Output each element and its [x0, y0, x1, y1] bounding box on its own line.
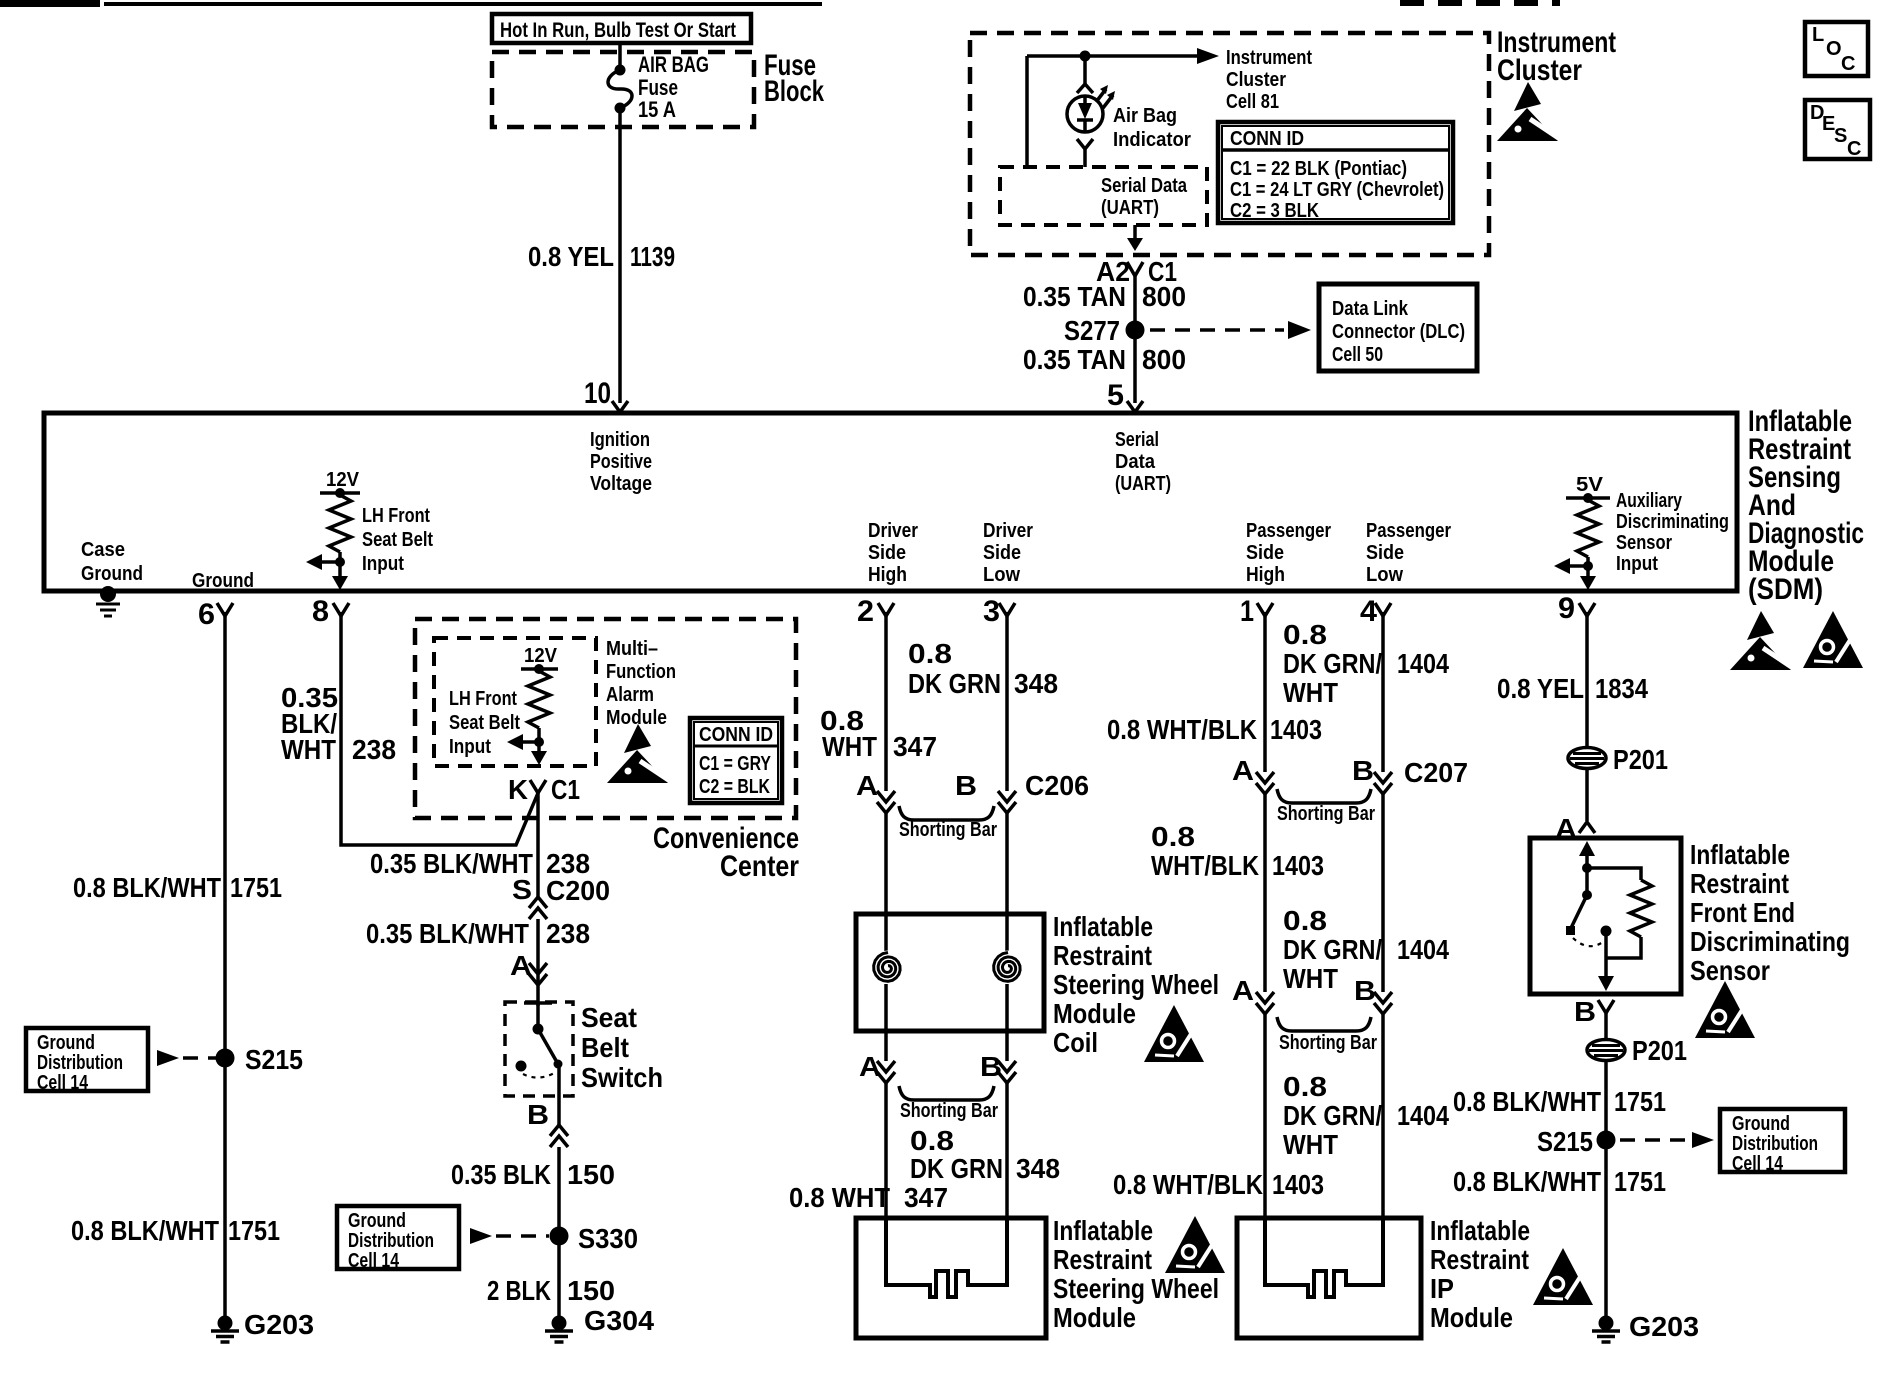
svg-text:Switch: Switch	[581, 1062, 663, 1093]
svg-text:Cell 50: Cell 50	[1332, 344, 1383, 366]
svg-text:C206: C206	[1025, 770, 1089, 801]
svg-text:Shorting Bar: Shorting Bar	[899, 819, 997, 841]
svg-text:S: S	[1834, 125, 1847, 147]
pass-through P201 lower	[1587, 1040, 1625, 1061]
svg-text:0.8: 0.8	[1283, 619, 1327, 650]
svg-text:Alarm: Alarm	[606, 684, 654, 706]
svg-text:Restraint: Restraint	[1690, 868, 1789, 899]
svg-text:C207: C207	[1404, 757, 1468, 788]
wire: into IP module	[1263, 1014, 1267, 1218]
svg-text:S330: S330	[578, 1223, 638, 1254]
svg-text:CONN ID: CONN ID	[699, 724, 773, 746]
wire: pin 2 driver side high 0.8 WHT 347	[884, 612, 888, 791]
svg-text:1404: 1404	[1397, 1100, 1449, 1131]
svg-text:Restraint: Restraint	[1053, 1244, 1152, 1275]
shorting bar C206	[899, 806, 994, 820]
svg-text:238: 238	[352, 734, 396, 765]
svg-text:G304: G304	[584, 1305, 654, 1336]
wire: seat belt input internal with left arrow	[338, 552, 342, 586]
svg-text:C2 = 3 BLK: C2 = 3 BLK	[1230, 200, 1319, 222]
dashed link S215 right to ground distribution	[1620, 1138, 1688, 1142]
svg-text:Shorting Bar: Shorting Bar	[1277, 803, 1375, 825]
svg-text:High: High	[1246, 564, 1285, 586]
svg-text:Passenger: Passenger	[1246, 520, 1331, 542]
pass-through P201 upper	[1568, 748, 1606, 769]
initiator: steering wheel module squib	[886, 1218, 1007, 1297]
svg-text:Driver: Driver	[868, 520, 918, 542]
svg-text:Auxiliary: Auxiliary	[1616, 490, 1683, 512]
wire: pin 4 passenger side low	[1381, 612, 1385, 772]
svg-text:348: 348	[1014, 668, 1058, 699]
svg-text:0.8: 0.8	[908, 638, 952, 669]
connector chevron above indicator	[1077, 84, 1093, 93]
svg-text:1403: 1403	[1270, 714, 1322, 745]
arrow to Instrument Cluster Cell 81	[1197, 48, 1219, 64]
svg-text:0.8 BLK/WHT: 0.8 BLK/WHT	[1453, 1166, 1601, 1197]
wire: aux sensor internal with left arrow	[1586, 557, 1590, 586]
svg-text:Distribution: Distribution	[37, 1052, 123, 1074]
sensor internal: resistor branch	[1587, 868, 1641, 880]
CONN ID box (convenience center)	[690, 718, 782, 803]
svg-text:Module: Module	[606, 707, 667, 729]
pin 6 terminal	[217, 603, 233, 616]
svg-text:B: B	[527, 1099, 549, 1130]
ESD symbol convenience center	[607, 724, 670, 783]
svg-text:B: B	[1352, 755, 1374, 786]
sensor internal: switch	[1585, 868, 1589, 891]
svg-text:0.35 BLK: 0.35 BLK	[451, 1159, 551, 1190]
pin 10 terminal	[612, 401, 628, 412]
svg-text:0.8 WHT: 0.8 WHT	[789, 1182, 890, 1213]
SDM module box	[44, 413, 1737, 591]
svg-text:1404: 1404	[1397, 934, 1449, 965]
svg-text:Inflatable: Inflatable	[1053, 1215, 1153, 1246]
svg-text:C1: C1	[551, 774, 580, 805]
svg-text:G203: G203	[244, 1309, 314, 1340]
svg-text:Function: Function	[606, 661, 676, 683]
node: junction dot above indicator	[1080, 51, 1091, 62]
svg-text:Steering Wheel: Steering Wheel	[1053, 1273, 1219, 1304]
shorting bar 2	[899, 1086, 994, 1100]
svg-text:(UART): (UART)	[1115, 473, 1171, 495]
wire: C206 B to coil box	[1005, 813, 1009, 952]
ground G203 right	[1592, 1316, 1620, 1343]
fuse block dashed box	[492, 52, 754, 127]
svg-text:12V: 12V	[524, 645, 558, 667]
resistor: LH front seat belt input pull-up	[320, 491, 360, 495]
pin 4 terminal	[1375, 603, 1391, 616]
svg-text:High: High	[868, 564, 907, 586]
svg-text:Distribution: Distribution	[1732, 1133, 1818, 1155]
pin 9 terminal	[1579, 603, 1595, 616]
svg-text:A: A	[1232, 755, 1254, 786]
svg-text:Serial Data: Serial Data	[1101, 175, 1188, 197]
svg-text:WHT: WHT	[1283, 963, 1338, 994]
svg-text:B: B	[980, 1051, 1002, 1082]
svg-text:0.8: 0.8	[1151, 821, 1195, 852]
svg-text:15 A: 15 A	[638, 97, 676, 122]
svg-text:WHT/BLK: WHT/BLK	[1151, 850, 1259, 881]
svg-text:0.8: 0.8	[1283, 1071, 1327, 1102]
connector chevron below indicator	[1077, 139, 1093, 149]
svg-text:0.8 BLK/WHT: 0.8 BLK/WHT	[1453, 1086, 1601, 1117]
svg-text:Ground: Ground	[348, 1210, 406, 1232]
svg-text:Seat Belt: Seat Belt	[362, 529, 433, 551]
svg-text:(SDM): (SDM)	[1748, 573, 1823, 606]
ground G304	[545, 1316, 573, 1343]
svg-text:4: 4	[1360, 595, 1377, 628]
svg-text:1404: 1404	[1397, 648, 1449, 679]
wire: C207 A down	[1263, 794, 1267, 992]
svg-text:6: 6	[198, 598, 215, 631]
svg-text:WHT: WHT	[281, 734, 336, 765]
ESD symbol front sensor	[1695, 981, 1755, 1038]
svg-text:0.8: 0.8	[1283, 905, 1327, 936]
wire: pin 8 run 0.35 BLK/WHT 238	[341, 612, 538, 845]
svg-text:0.8 WHT/BLK: 0.8 WHT/BLK	[1107, 714, 1257, 745]
pin 2 terminal	[878, 603, 894, 616]
svg-text:S277: S277	[1064, 315, 1120, 346]
svg-text:Ground: Ground	[37, 1032, 95, 1054]
svg-text:Side: Side	[868, 542, 906, 564]
wire: alarm resistor bottom with left arrow	[537, 728, 541, 760]
wire: coil outputs	[884, 984, 888, 1061]
svg-text:Distribution: Distribution	[348, 1230, 434, 1252]
svg-text:Ground: Ground	[192, 570, 254, 592]
svg-text:Ignition: Ignition	[590, 429, 650, 451]
wire: pin 3 driver side low 0.8 DK GRN 348	[1005, 612, 1009, 791]
wire: into steering wheel module	[884, 1083, 888, 1218]
wire: pin 1 passenger side high	[1263, 612, 1267, 772]
node S330	[550, 1227, 569, 1246]
svg-text:Shorting Bar: Shorting Bar	[1279, 1032, 1377, 1054]
svg-text:Seat Belt: Seat Belt	[449, 712, 520, 734]
svg-text:Instrument: Instrument	[1226, 47, 1312, 69]
svg-text:150: 150	[567, 1159, 615, 1190]
svg-text:(UART): (UART)	[1101, 197, 1159, 219]
resistor: alarm module seat belt input	[521, 667, 558, 671]
svg-text:0.8 WHT/BLK: 0.8 WHT/BLK	[1113, 1169, 1263, 1200]
svg-text:238: 238	[546, 918, 590, 949]
convenience center dashed box	[415, 619, 796, 818]
svg-text:C2 = BLK: C2 = BLK	[699, 776, 770, 798]
svg-text:Front End: Front End	[1690, 897, 1795, 928]
svg-text:Indicator: Indicator	[1113, 129, 1191, 151]
ESD symbol IP module	[1533, 1248, 1593, 1305]
wire: pin 6 ground run 0.8 BLK/WHT 1751	[223, 612, 227, 1318]
svg-text:Multi–: Multi–	[606, 638, 658, 660]
svg-text:Module: Module	[1430, 1302, 1513, 1333]
wire: B to P201 lower	[1604, 1013, 1608, 1040]
svg-text:5V: 5V	[1576, 474, 1604, 496]
svg-text:Discriminating: Discriminating	[1616, 511, 1729, 533]
svg-text:1403: 1403	[1272, 1169, 1324, 1200]
fuse F1 AIR BAG 15A	[615, 65, 626, 76]
CONN ID box (instrument cluster)	[1218, 122, 1453, 223]
svg-text:2 BLK: 2 BLK	[487, 1275, 551, 1306]
front end discriminating sensor box	[1530, 838, 1681, 994]
svg-text:C1 = 24 LT GRY (Chevrolet): C1 = 24 LT GRY (Chevrolet)	[1230, 179, 1444, 201]
svg-text:Restraint: Restraint	[1430, 1244, 1529, 1275]
svg-text:0.8 YEL: 0.8 YEL	[1497, 673, 1584, 704]
wire: serial data out with arrow	[1133, 225, 1137, 240]
svg-text:WHT: WHT	[1283, 1129, 1338, 1160]
svg-text:B: B	[955, 770, 977, 801]
case ground symbol	[100, 586, 116, 602]
svg-text:S: S	[512, 874, 532, 905]
wire: C200 to seat belt switch	[536, 919, 540, 1006]
svg-text:Serial: Serial	[1115, 429, 1159, 451]
svg-text:Side: Side	[1366, 542, 1404, 564]
svg-text:Side: Side	[983, 542, 1021, 564]
svg-text:Steering Wheel: Steering Wheel	[1053, 969, 1219, 1000]
sensor internal: output arrow down	[1604, 931, 1608, 985]
svg-text:B: B	[1574, 996, 1596, 1027]
svg-text:C: C	[1841, 53, 1855, 75]
wire: K to C200	[536, 793, 540, 897]
DESC box	[1805, 100, 1870, 159]
svg-text:Shorting Bar: Shorting Bar	[900, 1100, 998, 1122]
light rays of indicator	[1096, 89, 1106, 102]
svg-text:12V: 12V	[326, 469, 360, 491]
svg-text:Belt: Belt	[581, 1032, 629, 1063]
svg-text:3: 3	[983, 595, 1000, 628]
steering wheel module box	[856, 1218, 1046, 1338]
svg-text:1834: 1834	[1595, 673, 1648, 704]
ESD symbol instrument cluster	[1497, 82, 1560, 141]
svg-text:Discriminating: Discriminating	[1690, 926, 1850, 957]
svg-text:1751: 1751	[228, 1215, 280, 1246]
switch: seat belt	[524, 1001, 552, 1005]
svg-text:Low: Low	[1366, 564, 1403, 586]
svg-text:LH Front: LH Front	[362, 505, 430, 527]
seat belt switch dashed box	[505, 1002, 573, 1096]
wire: C207 B down	[1381, 794, 1385, 992]
svg-text:10: 10	[584, 377, 611, 410]
svg-text:CONN ID: CONN ID	[1230, 128, 1304, 150]
svg-text:347: 347	[904, 1182, 948, 1213]
shorting bar passenger 2	[1277, 1017, 1371, 1031]
svg-text:1751: 1751	[1614, 1166, 1666, 1197]
svg-text:Ground: Ground	[1732, 1113, 1790, 1135]
svg-text:Input: Input	[362, 553, 404, 575]
svg-text:S215: S215	[1537, 1126, 1593, 1157]
wire: P201 to sensor A	[1585, 769, 1589, 821]
svg-text:DK GRN/: DK GRN/	[1283, 934, 1382, 965]
multifunction alarm module dashed box	[434, 638, 596, 766]
dashed link to S215 left	[157, 1050, 179, 1066]
Hot In Run box	[492, 14, 751, 43]
lamp: air bag indicator LED	[1067, 96, 1103, 132]
svg-text:Sensor: Sensor	[1690, 955, 1770, 986]
svg-text:Hot In Run, Bulb Test Or Start: Hot In Run, Bulb Test Or Start	[500, 19, 736, 42]
pin 1 terminal	[1257, 603, 1273, 616]
svg-text:Seat: Seat	[581, 1002, 637, 1033]
svg-text:0.35 TAN: 0.35 TAN	[1023, 344, 1126, 375]
svg-text:0.8: 0.8	[910, 1125, 954, 1156]
svg-text:AIR BAG: AIR BAG	[638, 52, 709, 77]
svg-text:Cell 14: Cell 14	[1732, 1153, 1784, 1175]
svg-text:1751: 1751	[1614, 1086, 1666, 1117]
svg-text:Module: Module	[1053, 998, 1136, 1029]
ground distribution box right	[1720, 1109, 1845, 1172]
ground G203	[211, 1316, 239, 1343]
svg-text:Module: Module	[1053, 1302, 1136, 1333]
svg-text:L: L	[1812, 24, 1824, 46]
svg-text:0.35 BLK/WHT: 0.35 BLK/WHT	[366, 918, 529, 949]
svg-text:Cell 14: Cell 14	[37, 1072, 89, 1094]
pin 3 terminal	[999, 603, 1015, 616]
svg-text:K: K	[508, 774, 528, 805]
coil module box	[856, 914, 1044, 1031]
resistor: auxiliary discriminating sensor pull-up	[1566, 496, 1610, 500]
svg-text:C1 = 22 BLK (Pontiac): C1 = 22 BLK (Pontiac)	[1230, 158, 1407, 180]
svg-text:C: C	[1847, 138, 1861, 160]
svg-text:P201: P201	[1613, 744, 1668, 775]
wire: indicator top lead	[1083, 56, 1087, 85]
wire: switch to B terminal	[557, 1064, 561, 1125]
pin 8 terminal	[333, 603, 349, 616]
ESD symbol steering wheel module	[1165, 1216, 1225, 1273]
wire: pin 9 aux sensor 0.8 YEL 1834	[1585, 612, 1589, 747]
svg-text:348: 348	[1016, 1153, 1060, 1184]
ground distribution box left	[26, 1028, 148, 1091]
wire: indicator feed horizontal	[1027, 54, 1198, 58]
svg-text:Side: Side	[1246, 542, 1284, 564]
svg-text:P201: P201	[1632, 1035, 1687, 1066]
svg-text:O: O	[1826, 38, 1842, 60]
svg-text:Positive: Positive	[590, 451, 652, 473]
ESD symbol coil	[1144, 1005, 1204, 1062]
coil: driver high spiral	[871, 951, 906, 986]
wire: 0.8 BLK/WHT 1751 to G203	[1604, 1061, 1608, 1318]
ESD symbol SDM 2	[1803, 611, 1863, 668]
svg-text:0.35 BLK/WHT: 0.35 BLK/WHT	[370, 848, 533, 879]
wire: 0.35 BLK 150 to S330	[557, 1147, 561, 1318]
svg-text:150: 150	[567, 1275, 615, 1306]
serial data UART dashed box	[1000, 167, 1207, 225]
svg-text:1: 1	[1240, 595, 1254, 628]
svg-text:Center: Center	[720, 850, 799, 883]
svg-text:A: A	[856, 770, 878, 801]
svg-text:DK GRN/: DK GRN/	[1283, 648, 1382, 679]
svg-text:WHT: WHT	[1283, 677, 1338, 708]
svg-text:Air Bag: Air Bag	[1113, 105, 1177, 127]
wire: 0.35 TAN 800 upper	[1133, 276, 1137, 403]
wire: 0.8 YEL 1139 fuse to SDM pin 10	[618, 108, 622, 403]
svg-text:Ground: Ground	[81, 563, 143, 585]
instrument cluster dashed box	[970, 33, 1489, 255]
svg-text:5: 5	[1107, 379, 1124, 412]
ground distribution box S330	[337, 1206, 459, 1269]
svg-text:WHT: WHT	[822, 731, 877, 762]
svg-text:Passenger: Passenger	[1366, 520, 1451, 542]
dashed link S277 to DLC	[1150, 328, 1284, 332]
LOC box	[1805, 22, 1868, 76]
svg-text:Cell 81: Cell 81	[1226, 91, 1279, 113]
svg-text:1751: 1751	[230, 872, 282, 903]
svg-text:2: 2	[857, 595, 874, 628]
sensor internal: input arrow up	[1585, 845, 1589, 866]
svg-text:0.8 BLK/WHT: 0.8 BLK/WHT	[71, 1215, 219, 1246]
svg-text:Connector (DLC): Connector (DLC)	[1332, 321, 1465, 343]
svg-text:Driver: Driver	[983, 520, 1033, 542]
svg-text:Input: Input	[1616, 553, 1658, 575]
svg-text:S215: S215	[245, 1044, 303, 1075]
svg-text:DK GRN/: DK GRN/	[1283, 1100, 1382, 1131]
svg-text:C1 = GRY: C1 = GRY	[699, 753, 772, 775]
pin 5 terminal	[1127, 401, 1143, 412]
wire: left drop to serial data connector	[1025, 56, 1029, 167]
svg-text:800: 800	[1142, 281, 1186, 312]
svg-text:Case: Case	[81, 539, 125, 561]
svg-text:Cluster: Cluster	[1226, 69, 1286, 91]
svg-text:8: 8	[312, 595, 329, 628]
IP module box	[1237, 1218, 1421, 1338]
svg-text:A: A	[859, 1051, 881, 1082]
svg-text:1139: 1139	[630, 241, 675, 272]
svg-text:347: 347	[893, 731, 937, 762]
svg-text:Input: Input	[449, 736, 491, 758]
svg-text:LH Front: LH Front	[449, 688, 517, 710]
svg-text:Cell 14: Cell 14	[348, 1250, 400, 1272]
svg-text:Coil: Coil	[1053, 1027, 1098, 1058]
svg-text:Voltage: Voltage	[590, 473, 652, 495]
wire: fuse feed	[618, 43, 622, 69]
svg-text:C200: C200	[546, 875, 610, 906]
svg-text:1403: 1403	[1272, 850, 1324, 881]
svg-text:9: 9	[1558, 592, 1575, 625]
ESD symbol SDM 1	[1730, 611, 1793, 670]
svg-text:DK GRN: DK GRN	[910, 1153, 1003, 1184]
svg-text:Data: Data	[1115, 451, 1156, 473]
dashed link to S330	[470, 1228, 492, 1244]
svg-text:Inflatable: Inflatable	[1053, 911, 1153, 942]
svg-text:Data Link: Data Link	[1332, 298, 1409, 320]
svg-text:Low: Low	[983, 564, 1020, 586]
svg-text:B: B	[1354, 975, 1376, 1006]
shorting bar C207	[1277, 789, 1371, 803]
svg-text:800: 800	[1142, 344, 1186, 375]
coil: driver low spiral	[991, 951, 1026, 986]
wire: indicator bottom lead	[1083, 149, 1087, 167]
svg-text:Inflatable: Inflatable	[1690, 839, 1790, 870]
svg-text:Block: Block	[764, 75, 824, 108]
svg-text:IP: IP	[1430, 1273, 1454, 1304]
svg-text:Sensor: Sensor	[1616, 532, 1672, 554]
svg-text:DK GRN: DK GRN	[908, 668, 1001, 699]
svg-text:0.8 BLK/WHT: 0.8 BLK/WHT	[73, 872, 221, 903]
svg-text:Inflatable: Inflatable	[1430, 1215, 1530, 1246]
wire: C206 A to coil box	[884, 813, 888, 952]
svg-text:A: A	[1232, 975, 1254, 1006]
svg-text:0.8 YEL: 0.8 YEL	[528, 241, 614, 272]
initiator: IP module squib	[1265, 1218, 1383, 1297]
top border scan artifact	[0, 0, 100, 7]
svg-text:Cluster: Cluster	[1497, 54, 1582, 87]
svg-text:G203: G203	[1629, 1311, 1699, 1342]
svg-text:0.35 TAN: 0.35 TAN	[1023, 281, 1126, 312]
DLC box	[1319, 284, 1477, 371]
svg-text:Restraint: Restraint	[1053, 940, 1152, 971]
node S215 left	[216, 1049, 235, 1068]
